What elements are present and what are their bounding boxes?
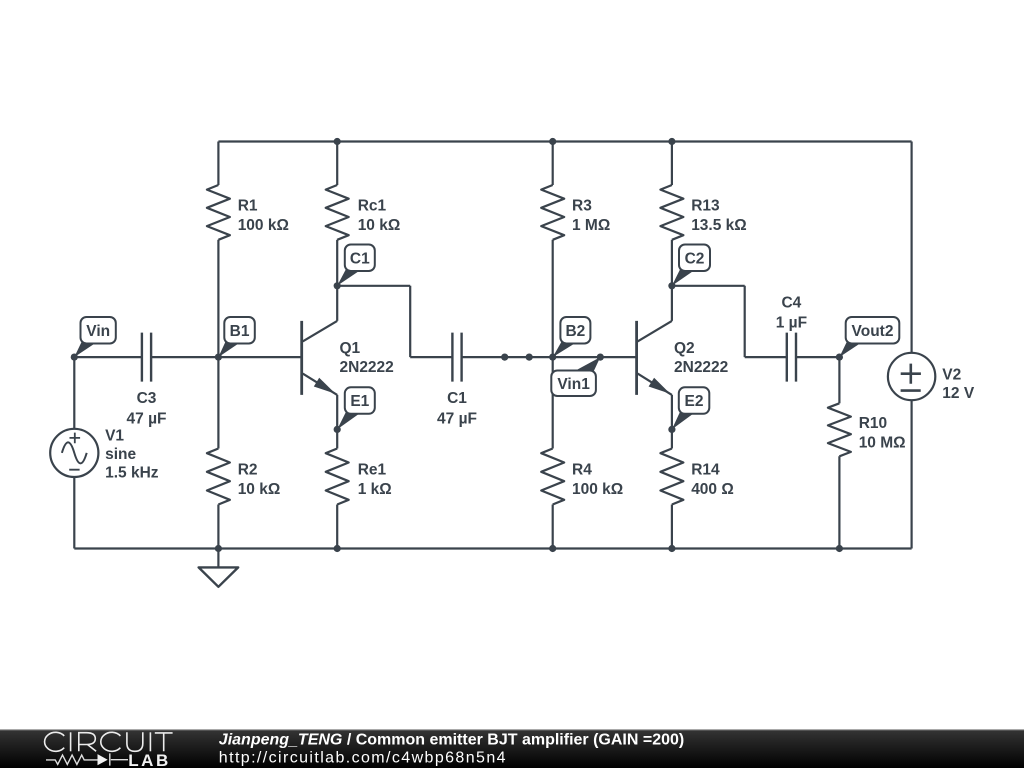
wire node E2 to R14 [671,429,673,448]
resistor R3 [541,185,610,240]
svg-text:V2: V2 [942,366,961,383]
wire Vout2 to R10 [838,357,840,403]
svg-text:B2: B2 [565,323,585,340]
svg-text:C4: C4 [781,295,801,312]
svg-text:Rc1: Rc1 [358,198,387,215]
CircuitLab logo wordmark CIRCUIT (hand-drawn thin letters) [45,732,173,751]
svg-text:100 kΩ: 100 kΩ [572,481,623,498]
svg-text:R1: R1 [238,198,258,215]
node junction bottom rail / R4 [549,545,556,552]
svg-text:2N2222: 2N2222 [340,359,394,376]
svg-text:10 kΩ: 10 kΩ [238,481,281,498]
svg-text:Q2: Q2 [674,340,695,357]
svg-text:Q1: Q1 [340,340,361,357]
voltage source V1 (sine) [50,428,159,482]
svg-text:C2: C2 [685,250,705,267]
resistor R1 [207,185,289,240]
svg-text:sine: sine [105,446,136,463]
node E2 junction [668,426,675,433]
svg-text:10 kΩ: 10 kΩ [358,217,401,234]
node label Vin1 [551,357,600,396]
resistor R10 [828,403,906,456]
node junction bottom rail / R10 [836,545,843,552]
node Vin junction [71,354,78,361]
svg-text:R13: R13 [691,198,720,215]
node junction wire dot 1 [501,354,508,361]
svg-text:V1: V1 [105,428,124,445]
wire R1 to B1 to R2 [217,240,219,449]
transistor Q2 2N2222 [637,286,729,430]
svg-text:E2: E2 [685,393,704,410]
node B1 junction [215,354,222,361]
svg-text:R10: R10 [859,415,887,432]
svg-text:Vin1: Vin1 [557,376,590,393]
wire right edge lower (V2 to rail) [910,400,912,548]
wire R2 to ground rail [217,505,219,549]
node junction bottom rail / Re1 [334,545,341,552]
node label B1 [218,317,254,357]
svg-text:13.5 kΩ: 13.5 kΩ [691,217,747,234]
node C2 junction [668,282,675,289]
wire top supply rail [218,140,911,142]
svg-text:Re1: Re1 [358,462,387,479]
wire node E1 to Re1 [336,429,338,448]
node C1 junction [334,282,341,289]
svg-text:1 µF: 1 µF [776,315,807,332]
wire C1 to B2 to Q2 base [462,356,637,358]
svg-text:C1: C1 [350,250,370,267]
svg-text:47 µF: 47 µF [127,410,167,427]
wire R14 to ground rail [671,505,673,549]
node Vout2 junction [836,354,843,361]
node B2 junction [549,354,556,361]
capacitor C3 [127,333,167,428]
svg-text:R4: R4 [572,462,592,479]
wire R4 to ground rail [552,505,554,549]
wire V1 bottom to ground rail [73,477,75,549]
wire rail to R1 [217,142,219,186]
node label Vin [74,317,116,357]
node junction bottom rail / R2 [215,545,222,552]
wire C4 to Vout2 [796,356,839,358]
transistor Q1 2N2222 [302,286,394,430]
node junction top rail / R13 [668,138,675,145]
capacitor C4 [776,295,807,382]
CircuitLab logo resistor-diode glyph [46,753,128,765]
svg-text:E1: E1 [350,393,369,410]
svg-text:C1: C1 [447,390,467,407]
wire R10 to ground rail [838,456,840,548]
svg-text:R3: R3 [572,198,592,215]
node label E1 [337,387,375,429]
wire Rc1 to node C1 [336,240,338,286]
node junction bottom rail / R14 [668,545,675,552]
resistor R14 [660,449,733,505]
node label Vout2 [839,317,899,357]
wire R3 to B2 to R4 [552,240,554,449]
svg-text:1 kΩ: 1 kΩ [358,481,392,498]
wire R13 to node C2 [671,240,673,286]
wire node C2 to capacitor C4 [672,286,787,357]
svg-text:1.5 kHz: 1.5 kHz [105,465,159,482]
svg-text:C3: C3 [137,390,157,407]
svg-text:1 MΩ: 1 MΩ [572,217,610,234]
svg-text:http://circuitlab.com/c4wbp68n: http://circuitlab.com/c4wbp68n5n4 [219,749,507,766]
svg-text:47 µF: 47 µF [437,410,477,427]
resistor R4 [541,449,623,505]
wire right edge upper (rail to V2) [910,142,912,353]
wire node C1 to capacitor C1 [337,286,452,357]
capacitor C1 [437,333,477,428]
node label B2 [553,317,591,357]
node junction top rail / Rc1 [334,138,341,145]
wire Vin node to V1 top [73,357,75,429]
resistor R13 [660,185,746,240]
wire C3 to B1 to Q1 base [151,356,302,358]
node E1 junction [334,426,341,433]
wire rail to Rc1 [336,142,338,186]
svg-text:Vin: Vin [86,323,110,340]
node junction wire dot 2 [526,354,533,361]
ground [199,549,239,587]
resistor Rc1 [326,185,401,240]
svg-text:R14: R14 [691,462,720,479]
node label E2 [672,387,709,429]
svg-text:R2: R2 [238,462,258,479]
svg-text:100 kΩ: 100 kΩ [238,217,289,234]
node label C1 [337,245,375,286]
svg-text:B1: B1 [230,323,250,340]
wire rail to R3 [552,142,554,186]
node junction top rail / R3 [549,138,556,145]
svg-text:LAB: LAB [128,751,171,768]
svg-text:12 V: 12 V [942,385,975,402]
svg-text:Vout2: Vout2 [852,323,894,340]
svg-text:2N2222: 2N2222 [674,359,728,376]
svg-text:Jianpeng_TENG / Common emitter: Jianpeng_TENG / Common emitter BJT ampli… [219,731,684,748]
node label C2 [672,245,710,286]
svg-text:400 Ω: 400 Ω [691,481,734,498]
wire Re1 to ground rail [336,505,338,549]
node Vin1 attach dot [597,354,604,361]
resistor Re1 [326,449,392,505]
resistor R2 [207,449,280,505]
wire Vin to C3 [74,356,142,358]
wire bottom ground rail [74,547,911,549]
voltage source V2 12 V [888,353,975,402]
wire rail to R13 [671,142,673,186]
svg-text:10 MΩ: 10 MΩ [859,434,906,451]
